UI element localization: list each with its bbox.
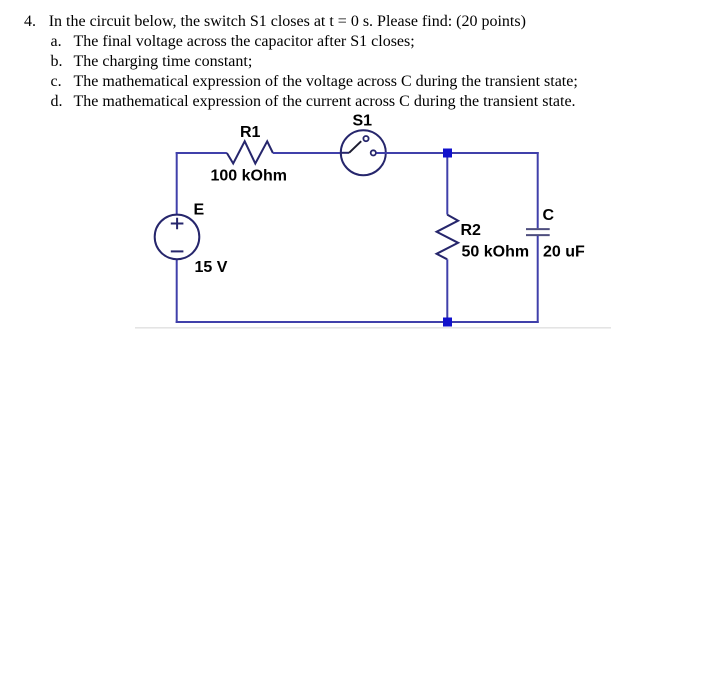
svg-text:R1: R1 [240,124,261,141]
problem text line 1 [24,14,36,30]
wire: top left horizontal segment [176,152,227,154]
problem text item c [51,74,62,90]
svg-text:50 kOhm: 50 kOhm [462,244,530,261]
problem text item d [51,94,63,110]
svg-text:R2: R2 [461,222,482,239]
svg-text:15 V: 15 V [195,259,228,276]
svg-text:S1: S1 [353,113,373,130]
junction node top [443,149,452,158]
wire: right vertical lower (capacitor to bottom wire) [537,236,539,323]
problem text item b [51,54,63,70]
resistor R1 zigzag [227,141,273,163]
svg-text:C: C [543,207,555,224]
switch S1 internal left stub [341,152,349,154]
wire: left vertical upper (corner to E source top) [176,152,178,219]
capacitor C bottom plate [526,234,550,236]
voltage source plus sign [171,218,184,229]
svg-text:100 kOhm: 100 kOhm [211,168,287,185]
wire: R1 to switch S1 [273,152,341,154]
switch S1 top contact [363,136,368,141]
switch S1 arm (open) [349,141,361,153]
voltage source E circle [155,215,200,260]
switch S1 body circle [341,130,386,175]
wire: bottom horizontal [176,321,539,323]
faint page rule line [135,327,611,329]
resistor R2 zigzag [437,215,459,260]
capacitor C top plate [526,228,550,230]
wire: switch to top-right corner [377,152,539,154]
svg-text:E: E [194,202,205,219]
wire: left vertical lower (E source bottom to bottom wire) [176,259,178,323]
problem text item a [51,34,62,50]
junction node bottom [443,318,452,327]
wire: middle vertical lower (R2 to bottom junction) [446,259,448,322]
switch S1 right contact [371,150,376,155]
svg-text:20 uF: 20 uF [543,244,585,261]
wire: middle vertical upper (junction to R2) [446,153,448,215]
voltage source minus sign [171,250,184,252]
wire: right vertical upper (corner to capacitor) [537,152,539,228]
